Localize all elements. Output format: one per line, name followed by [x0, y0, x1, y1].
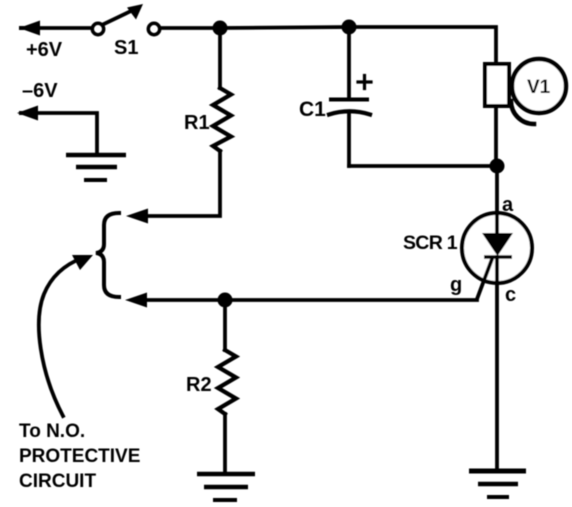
svg-text:R2: R2 [186, 374, 212, 396]
node -6V arrow [17, 106, 38, 121]
ground (-6V return) [66, 155, 126, 180]
svg-text:R1: R1 [184, 112, 210, 134]
resistor R1 [213, 28, 231, 151]
arrowhead into brace (bottom) [125, 293, 147, 308]
svg-text:–6V: –6V [22, 80, 58, 102]
svg-text:PROTECTIVE: PROTECTIVE [19, 446, 140, 467]
SCR1 [462, 213, 532, 299]
wire SCR cathode to ground [495, 283, 499, 469]
svg-text:To N.O.: To N.O. [19, 421, 85, 442]
capacitor C1 [329, 27, 370, 166]
node +6V arrow [19, 21, 40, 36]
wire switch to node A [160, 26, 220, 30]
svg-text:S1: S1 [114, 37, 138, 59]
wire R1 bottom to brace top arrow [140, 151, 220, 216]
wire gate to node D and brace bottom arrow [140, 298, 477, 302]
polarity + mark [358, 76, 371, 89]
arrowhead into brace (top) [126, 209, 148, 224]
label To N.O. PROTECTIVE CIRCUIT [19, 421, 140, 492]
ground (SCR cathode) [469, 471, 526, 497]
svg-text:C1: C1 [299, 98, 326, 121]
wire V1 bottom to node C [494, 106, 498, 166]
switch S1 [92, 4, 159, 35]
svg-text:c: c [505, 284, 516, 306]
junction node D (top of R2) [218, 293, 233, 308]
junction node B (top of C1) [342, 20, 357, 35]
svg-text:SCR 1: SCR 1 [403, 232, 458, 254]
resistor R2 [218, 300, 236, 472]
svg-text:CIRCUIT: CIRCUIT [19, 471, 96, 492]
svg-text:V1: V1 [527, 77, 551, 98]
svg-text:g: g [450, 274, 462, 296]
wire +6V to switch [38, 26, 91, 30]
brace (connection points to protective circuit) [96, 213, 119, 297]
wire node B to V1 top [349, 27, 496, 64]
lamp V1 [485, 59, 566, 124]
wire -6V to ground [36, 113, 97, 153]
svg-text:+6V: +6V [26, 39, 63, 61]
callout curved arrow to brace [39, 255, 93, 416]
junction node A (top of R1) [213, 21, 228, 36]
ground (R2) [197, 474, 255, 500]
junction node C (SCR anode node) [490, 159, 505, 174]
wire C1 bottom to node C [349, 164, 497, 168]
wire node A to node B [220, 27, 349, 28]
wire node C to SCR anode [495, 166, 499, 214]
